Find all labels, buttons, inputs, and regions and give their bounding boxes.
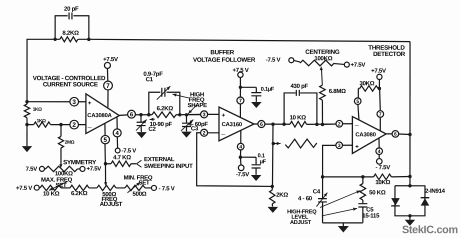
label DETECTOR — [373, 51, 406, 58]
label VOLTAGE FOLLOWER — [193, 57, 256, 64]
ground 2K — [268, 207, 279, 213]
label HIGH shape — [190, 91, 204, 98]
wire 2K stem — [271, 186, 273, 206]
wire 20pF feedback loop — [55, 16, 89, 40]
wire pin2 U2 to opamp — [207, 132, 219, 134]
arrow waveform probe — [273, 142, 280, 145]
pin 6 U3 — [392, 131, 399, 138]
svg-text:7: 7 — [239, 98, 242, 104]
label C3 — [191, 125, 199, 132]
capacitor C3 4-60pF plates — [182, 123, 191, 126]
wire +7.5V stem U2 — [239, 78, 241, 118]
wire input line to pin2 U3 — [322, 123, 336, 126]
leader arrow to 50K — [320, 191, 361, 208]
svg-text:2MΩ: 2MΩ — [65, 140, 75, 145]
svg-text:—: — — [221, 131, 225, 136]
label 0.1uF top — [261, 87, 275, 93]
label 10 KΩ — [43, 191, 60, 198]
svg-text:+7.5V: +7.5V — [86, 166, 101, 173]
arrow C4 variable — [316, 193, 327, 207]
svg-text:C5: C5 — [366, 206, 374, 213]
resistor 1K horizontal — [34, 122, 51, 127]
svg-text:6: 6 — [394, 132, 397, 138]
junction 430pF left — [282, 123, 285, 126]
svg-text:C4: C4 — [313, 188, 321, 195]
label 0.1 bottom — [258, 153, 265, 159]
label -7.5 V centering — [266, 57, 281, 64]
svg-text:6: 6 — [260, 122, 263, 128]
pin 2 U2 — [201, 129, 208, 136]
wire pin3 U3 — [323, 145, 337, 177]
wire pin3 U2 — [189, 113, 201, 115]
svg-text:—: — — [355, 123, 359, 128]
pin 7 U1 — [104, 81, 113, 90]
wire U2 output — [254, 123, 336, 125]
svg-text:500Ω: 500Ω — [133, 191, 147, 198]
wiper arrow min freq set — [127, 182, 140, 193]
junction output node — [408, 133, 411, 136]
ground C2 — [136, 132, 147, 138]
wire pin3 circle to U2 — [207, 113, 219, 115]
junction pin4 U2 — [239, 156, 242, 159]
ground diode bridge — [405, 220, 415, 226]
label 430 pF — [290, 83, 308, 90]
label 2-IN914 — [425, 188, 446, 195]
label SYMMETRY — [63, 159, 97, 166]
terminal +7.5V U3 — [377, 74, 382, 79]
svg-text:SET: SET — [56, 182, 68, 189]
label 7.5V symmetry left — [26, 166, 38, 173]
terminal -7.5V U3 — [376, 159, 382, 165]
resistor 6.2K high freq — [152, 112, 176, 118]
junction feedback line left — [321, 175, 324, 178]
wire pin2 circle to opamp — [78, 124, 85, 126]
label 10KΩ feedback — [375, 179, 390, 186]
label 1KΩ horizontal — [37, 118, 46, 123]
label CA3080 — [355, 131, 375, 138]
wire feedback line — [323, 175, 410, 177]
label +7.5V U1 — [103, 56, 118, 63]
arrow C2 variable — [136, 120, 147, 131]
svg-text:50 KΩ: 50 KΩ — [369, 189, 386, 196]
svg-text:2: 2 — [203, 131, 206, 137]
svg-text:8.2KΩ: 8.2KΩ — [62, 30, 79, 37]
potentiometer FREQ ADJUST 500 — [97, 185, 116, 190]
svg-text:SWEEPING INPUT: SWEEPING INPUT — [144, 163, 193, 170]
label SWEEPING INPUT — [144, 163, 193, 170]
svg-text:10KΩ: 10KΩ — [375, 179, 390, 186]
junction supply bypass U2 — [239, 86, 242, 89]
wire diode bridge — [395, 186, 425, 216]
svg-text:BUFFER: BUFFER — [210, 49, 234, 56]
svg-text:+7.5 V: +7.5 V — [233, 67, 249, 74]
label 1KΩ vertical — [33, 107, 42, 112]
junction C1 right — [178, 113, 181, 116]
label C4 — [313, 188, 321, 195]
svg-text:7: 7 — [106, 83, 110, 90]
wire centering right — [334, 63, 344, 66]
terminal centering right — [344, 62, 349, 67]
label LEVEL — [291, 215, 309, 221]
resistor 6.2K bottom — [70, 185, 89, 190]
label C2 — [148, 126, 156, 133]
pin 5 U1 — [101, 135, 109, 144]
leader arrow shape to C3 — [188, 105, 196, 114]
ground left column — [22, 146, 32, 152]
watermark — [402, 224, 458, 236]
svg-text:2-IN914: 2-IN914 — [425, 188, 446, 195]
svg-text:1KΩ: 1KΩ — [33, 107, 42, 112]
wire to pin 3 — [27, 101, 70, 103]
ground C4 C5 bus — [338, 226, 349, 233]
wire pin4 bypass branch — [240, 157, 256, 175]
label -7.5V U3 — [376, 164, 391, 171]
wire pin7 U3 stem — [379, 117, 381, 131]
wire C3 stem — [185, 115, 187, 132]
wire bottom chain — [39, 187, 151, 189]
svg-text:4: 4 — [239, 144, 242, 150]
svg-text:-7.5 V: -7.5 V — [266, 57, 281, 64]
label CURRENT SOURCE — [43, 81, 98, 88]
potentiometer MIN FREQ SET 500 — [125, 185, 145, 190]
svg-text:C1: C1 — [146, 76, 154, 83]
wire 6.8M to input line — [321, 100, 323, 124]
svg-text:3: 3 — [338, 143, 341, 149]
svg-text:3: 3 — [72, 99, 76, 106]
wire pin4 U3 stem — [378, 138, 380, 159]
label 20 pF — [64, 6, 79, 13]
resistor 2M — [58, 136, 63, 148]
label CA3080A — [87, 112, 112, 119]
external sweeping input arrow — [137, 160, 142, 167]
svg-text:+7.5V: +7.5V — [351, 62, 366, 69]
svg-text:µF: µF — [260, 159, 267, 165]
svg-text:-7.5V: -7.5V — [236, 171, 249, 178]
op-amp U1 CA3080A triangle — [86, 94, 119, 134]
junction C3 tee — [185, 113, 188, 116]
capacitor C2 10-90pF plates — [137, 122, 146, 125]
terminal +7.5V U1 — [104, 62, 110, 68]
ground bypass top — [251, 102, 262, 108]
label 6.2KΩ high freq — [157, 105, 174, 112]
wire ground bus C4 C5 — [323, 222, 363, 224]
label 4-60 — [298, 195, 313, 202]
wire pin2 circle to U3 — [342, 123, 352, 125]
pin 2 U1 — [70, 120, 79, 129]
resistor 2K load — [270, 190, 275, 204]
resistor 10K input — [290, 121, 307, 127]
svg-text:DETECTOR: DETECTOR — [373, 51, 406, 58]
svg-text:5: 5 — [104, 137, 108, 144]
potentiometer SYMMETRY 100K — [44, 166, 80, 171]
terminal symmetry right — [80, 166, 85, 171]
arrow C3 variable — [181, 120, 193, 131]
label 4.7 KΩ — [113, 154, 131, 161]
pin 3 U2 — [201, 111, 208, 118]
junction node pin2 tee — [25, 123, 28, 126]
plus input U3 — [355, 144, 359, 150]
svg-text:+7.5 V: +7.5 V — [16, 185, 32, 192]
svg-text:10 KΩ: 10 KΩ — [43, 191, 60, 198]
label FREQ shape — [189, 97, 205, 104]
svg-text:CA3160: CA3160 — [222, 121, 242, 128]
terminal symmetry left — [39, 166, 44, 171]
svg-text:ADJUST: ADJUST — [290, 220, 312, 226]
wire right vertical from top line to output node — [409, 42, 411, 186]
minus input U1 — [88, 125, 92, 130]
svg-text:100KΩ: 100KΩ — [55, 170, 73, 177]
svg-text:C3: C3 — [191, 125, 199, 132]
svg-text:ADJUST: ADJUST — [100, 201, 123, 208]
label HIGH-FREQ — [287, 209, 317, 215]
pin 5 U3 — [354, 98, 361, 105]
terminal -7.5V U2 — [238, 165, 244, 171]
junction 50K tee — [361, 175, 364, 178]
junction 430pF right — [315, 123, 318, 126]
svg-text:2: 2 — [338, 122, 341, 128]
pin 3 U3 — [336, 142, 343, 149]
svg-text:+7.5V: +7.5V — [371, 68, 386, 75]
junction follower feedback — [271, 123, 274, 126]
wiper arrow max freq set — [49, 181, 68, 190]
capacitor 0.1uF top plates — [251, 93, 261, 96]
node waveform probe — [272, 142, 275, 145]
svg-text:CA3080: CA3080 — [355, 131, 375, 138]
svg-text:30KΩ: 30KΩ — [360, 80, 375, 87]
svg-text:SET: SET — [139, 180, 151, 187]
label 500Ω min freq — [133, 191, 147, 198]
svg-text:4: 4 — [378, 149, 381, 155]
wire pin2 U2 feedback loop — [197, 133, 273, 187]
capacitor 0.1uF bottom plates — [252, 165, 261, 168]
wire pin4 U1 stem — [116, 117, 119, 148]
label SHAPE — [187, 102, 207, 109]
svg-text:100KΩ: 100KΩ — [314, 55, 332, 62]
wiper arrow symmetry pot — [59, 164, 62, 168]
svg-text:6.2KΩ: 6.2KΩ — [71, 190, 88, 197]
pin 4 U2 — [237, 143, 244, 150]
leader arrow to C5 — [322, 208, 357, 216]
op-amp U3 CA3080 triangle — [352, 117, 386, 154]
wire 1K to pin 2 — [27, 124, 70, 126]
pin 7 U3 — [377, 111, 384, 118]
wire 30K to pin5 — [358, 88, 359, 98]
svg-text:3: 3 — [203, 112, 206, 118]
wiper arrow freq adjust — [104, 164, 107, 186]
junction C2 tee — [139, 113, 142, 116]
svg-text:StekIC.com: StekIC.com — [402, 224, 458, 236]
label +7.5V U3 — [371, 68, 386, 75]
wire C5 to ground bus — [362, 207, 364, 222]
wire C4 branch — [322, 177, 324, 223]
capacitor 20pF plates — [69, 13, 72, 20]
pin 3 U1 — [70, 97, 79, 106]
svg-text:CURRENT SOURCE: CURRENT SOURCE — [43, 81, 98, 88]
label +7.5V symmetry right — [86, 166, 101, 173]
op-amp U2 CA3160 triangle — [219, 107, 254, 141]
potentiometer MAX FREQ SET 10K — [40, 185, 61, 190]
pin 6 U2 — [258, 121, 265, 128]
wiper arrow centering — [320, 66, 323, 85]
svg-text:1KΩ: 1KΩ — [37, 118, 46, 123]
wire bypass branch U2 — [240, 87, 256, 102]
label +7.5 V max freq — [16, 185, 32, 192]
label EXTERNAL — [144, 156, 175, 163]
svg-text:430 pF: 430 pF — [290, 83, 308, 90]
terminal centering left — [289, 58, 294, 63]
label SET min freq — [139, 180, 151, 187]
svg-text:0.1µF: 0.1µF — [261, 87, 275, 93]
label MIN. FREQ — [124, 175, 153, 182]
pin 4 U1 — [113, 129, 121, 137]
wire left column — [26, 102, 28, 146]
label +7.5 V U2 — [233, 67, 249, 74]
label VOLTAGE-CONTROLLED — [33, 75, 106, 82]
svg-text:C2: C2 — [148, 126, 156, 133]
pin 7 U2 — [237, 97, 244, 104]
wire pin3 circle to opamp — [79, 101, 86, 103]
diode D2 1N914 right — [421, 198, 430, 206]
label 10-90 pF — [150, 121, 173, 128]
label CA3160 — [222, 121, 242, 128]
plus input U1 — [88, 101, 92, 107]
junction 6.8M input — [321, 123, 324, 126]
arrow C1 variable — [157, 86, 171, 100]
label 4-60pF — [189, 121, 209, 128]
wire ground bus stem — [342, 223, 344, 226]
svg-text:4 - 60: 4 - 60 — [298, 195, 313, 202]
svg-text:SHAPE: SHAPE — [187, 102, 207, 109]
label 6.8MΩ — [329, 88, 346, 95]
diode D1 1N914 left — [391, 198, 400, 206]
wire 50K stem — [362, 177, 364, 203]
label uF bottom — [260, 159, 267, 165]
label C5 — [366, 206, 374, 213]
junction node pin3 tee — [25, 100, 28, 103]
leader arrow high freq shape — [173, 93, 190, 98]
junction C1 left — [147, 113, 150, 116]
wire pin7 U1 stem — [106, 69, 109, 108]
capacitor 430pF plates — [296, 90, 299, 96]
label arrow C2 — [150, 118, 155, 121]
wire C2 stem — [140, 115, 142, 132]
resistor 4.7K — [105, 161, 136, 166]
svg-text:5: 5 — [356, 99, 359, 105]
terminal max freq +7.5V — [34, 185, 39, 190]
label 8.2KΩ — [62, 30, 79, 37]
svg-text:- 7.5V: - 7.5V — [376, 164, 391, 171]
label 500Ω freq adjust — [102, 191, 116, 198]
label 15-115 — [362, 212, 380, 219]
potentiometer CENTERING 100K — [300, 60, 334, 66]
junction diode bottom — [408, 214, 411, 217]
wire pin5 stem — [104, 144, 106, 164]
svg-text:2: 2 — [72, 122, 76, 129]
wire main top feedback line — [27, 39, 410, 102]
resistor R 1K vertical — [24, 104, 29, 118]
pin 6 U1 — [128, 110, 136, 118]
resistor 30K — [360, 86, 379, 91]
svg-text:+7.5V: +7.5V — [103, 56, 118, 63]
wire C1 loop — [149, 92, 180, 115]
junction pin5 4.7K — [104, 162, 107, 165]
svg-text:7.5V: 7.5V — [26, 166, 38, 173]
svg-text:-7.5 V: -7.5 V — [121, 147, 136, 154]
svg-text:CA3080A: CA3080A — [87, 112, 112, 119]
svg-text:6.2KΩ: 6.2KΩ — [157, 105, 174, 112]
label -7.5V min freq — [159, 185, 175, 192]
ground C3 — [181, 132, 192, 138]
wire 430pF loop — [284, 93, 317, 124]
label BUFFER — [210, 49, 234, 56]
label C1 — [146, 76, 154, 83]
wire centering left — [294, 60, 300, 62]
plus input U2 — [222, 113, 226, 119]
svg-text:VOLTAGE FOLLOWER: VOLTAGE FOLLOWER — [193, 57, 256, 64]
label 10 KΩ input — [290, 114, 307, 121]
wire pin3 circle to U3 — [342, 144, 352, 146]
wire -7.5V stem U2 — [239, 157, 242, 165]
resistor 8.2K — [60, 37, 78, 42]
svg-text:6.8MΩ: 6.8MΩ — [329, 88, 346, 95]
minus input U3 — [355, 123, 359, 128]
svg-text:- 7.5 V: - 7.5 V — [159, 185, 175, 192]
wire pin4 U2 stem — [239, 131, 241, 157]
wire U3 output — [386, 133, 410, 136]
minus input U2 — [221, 131, 225, 136]
wire diode ground stem — [409, 216, 411, 220]
junction 30K supply — [378, 87, 381, 90]
junction diode top — [408, 184, 411, 187]
svg-text:CENTERING: CENTERING — [305, 49, 340, 56]
pin 2 U3 — [336, 120, 343, 127]
junction dots 8.2K/20pF — [53, 38, 90, 41]
resistor 10K feedback — [374, 174, 392, 180]
wire +7.5V stem U3 — [378, 79, 381, 111]
label 0.9-7pF — [143, 71, 163, 78]
label 2MΩ — [65, 140, 75, 145]
label 100KΩ symmetry — [55, 170, 73, 177]
label MAX FREQ — [41, 177, 73, 184]
svg-text:20 pF: 20 pF — [64, 6, 79, 13]
label -7.5V U2 — [236, 171, 249, 178]
capacitor C5 15-115 plates — [358, 204, 367, 207]
svg-text:2KΩ: 2KΩ — [276, 192, 288, 199]
wire U1 output — [119, 113, 201, 116]
resistor 6.8M — [320, 85, 326, 100]
junction 2K tee — [271, 185, 274, 188]
capacitor C4 4-60 plates — [318, 199, 327, 202]
terminal -7.5V U1 — [115, 148, 120, 153]
label ADJUST level — [290, 220, 312, 226]
label -7.5V U1 — [121, 147, 136, 154]
svg-text:EXTERNAL: EXTERNAL — [144, 156, 175, 163]
label 100KΩ centering — [314, 55, 332, 62]
label 2KΩ — [276, 192, 288, 199]
label +7.5V centering — [351, 62, 366, 69]
label 6.2KΩ bottom — [71, 190, 88, 197]
svg-text:10 KΩ: 10 KΩ — [290, 114, 307, 121]
svg-text:—: — — [88, 125, 92, 130]
label 50 KΩ — [369, 189, 386, 196]
wire pin5 U3 stem — [358, 104, 359, 120]
wire pin5 U1 stem — [104, 123, 106, 135]
pin 4 U3 — [376, 148, 383, 155]
wire follower feedback vertical — [271, 124, 274, 186]
label SET max freq — [56, 182, 68, 189]
label FREQ — [102, 196, 118, 203]
terminal +7.5V U2 — [238, 72, 243, 77]
